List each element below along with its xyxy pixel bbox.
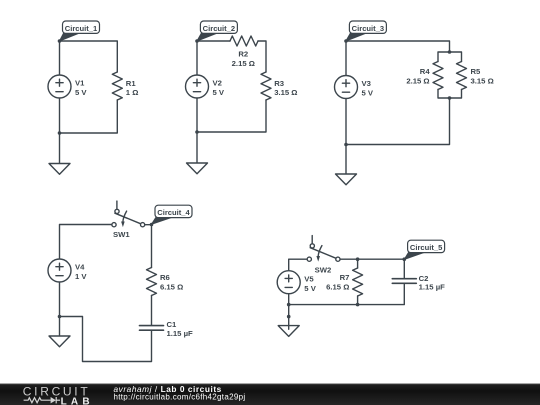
svg-text:1 V: 1 V bbox=[75, 272, 87, 281]
svg-text:http://circuitlab.com/c6fh42gt: http://circuitlab.com/c6fh42gta29pj bbox=[114, 392, 246, 401]
svg-text:6.15 Ω: 6.15 Ω bbox=[160, 283, 183, 292]
svg-text:V5: V5 bbox=[304, 274, 314, 283]
svg-text:Circuit_5: Circuit_5 bbox=[410, 243, 443, 252]
svg-text:1.15 µF: 1.15 µF bbox=[167, 329, 194, 338]
svg-text:5 V: 5 V bbox=[75, 88, 87, 97]
svg-text:2.15 Ω: 2.15 Ω bbox=[232, 59, 255, 68]
svg-text:3.15 Ω: 3.15 Ω bbox=[274, 88, 297, 97]
svg-text:R5: R5 bbox=[471, 67, 482, 76]
svg-text:Circuit_4: Circuit_4 bbox=[157, 208, 190, 217]
svg-text:5 V: 5 V bbox=[304, 284, 316, 293]
svg-text:R2: R2 bbox=[238, 50, 248, 59]
svg-text:Circuit_2: Circuit_2 bbox=[203, 24, 236, 33]
svg-text:2.15 Ω: 2.15 Ω bbox=[406, 76, 429, 85]
svg-text:R4: R4 bbox=[420, 67, 431, 76]
svg-text:SW1: SW1 bbox=[113, 230, 130, 239]
svg-text:V3: V3 bbox=[362, 79, 371, 88]
svg-text:SW2: SW2 bbox=[315, 265, 332, 274]
svg-text:R1: R1 bbox=[126, 79, 137, 88]
svg-text:R6: R6 bbox=[160, 273, 170, 282]
svg-text:R7: R7 bbox=[340, 273, 350, 282]
svg-text:5 V: 5 V bbox=[213, 88, 225, 97]
svg-text:V4: V4 bbox=[75, 263, 85, 272]
svg-text:C1: C1 bbox=[167, 320, 178, 329]
svg-text:5 V: 5 V bbox=[362, 89, 374, 98]
svg-text:6.15 Ω: 6.15 Ω bbox=[326, 283, 349, 292]
svg-text:R3: R3 bbox=[274, 79, 284, 88]
svg-text:V2: V2 bbox=[213, 79, 222, 88]
svg-text:Circuit_1: Circuit_1 bbox=[65, 24, 98, 33]
svg-text:Circuit_3: Circuit_3 bbox=[352, 24, 385, 33]
svg-text:1.15 µF: 1.15 µF bbox=[419, 282, 446, 291]
svg-text:1 Ω: 1 Ω bbox=[126, 88, 139, 97]
svg-text:3.15 Ω: 3.15 Ω bbox=[471, 76, 494, 85]
svg-text:V1: V1 bbox=[75, 79, 85, 88]
svg-text:LAB: LAB bbox=[61, 397, 94, 405]
